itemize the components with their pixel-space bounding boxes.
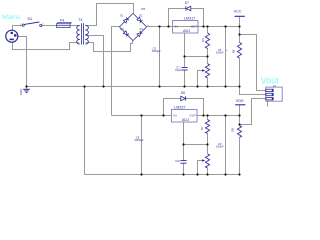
svg-text:IN: IN <box>174 113 177 117</box>
svg-text:IN: IN <box>175 24 178 28</box>
svg-text:J2: J2 <box>273 84 277 88</box>
svg-text:OUT: OUT <box>191 24 198 28</box>
svg-text:R8: R8 <box>230 128 234 132</box>
svg-text:D7: D7 <box>185 1 189 5</box>
svg-text:100nF: 100nF <box>216 145 224 149</box>
svg-text:OUT: OUT <box>190 113 197 117</box>
svg-text:D8: D8 <box>181 91 185 95</box>
svg-text:ADJ: ADJ <box>183 29 190 33</box>
svg-text:+: + <box>226 49 228 52</box>
svg-text:Mains: Mains <box>2 14 21 21</box>
svg-text:3300µF: 3300µF <box>134 138 144 142</box>
svg-text:LM317: LM317 <box>184 16 195 20</box>
svg-text:100nF: 100nF <box>216 51 224 55</box>
svg-text:D5: D5 <box>141 7 145 11</box>
svg-text:R7: R7 <box>200 126 204 130</box>
svg-text:10µF: 10µF <box>175 68 182 72</box>
svg-text:R5: R5 <box>201 38 205 42</box>
svg-text:R6: R6 <box>232 49 236 53</box>
svg-text:Vout: Vout <box>261 76 280 86</box>
svg-text:3300µF: 3300µF <box>152 49 162 53</box>
svg-text:D2: D2 <box>139 15 143 18</box>
svg-text:D1: D1 <box>120 15 124 18</box>
svg-text:LM337: LM337 <box>174 106 185 110</box>
svg-text:VDD: VDD <box>236 99 244 103</box>
svg-text:S1: S1 <box>27 16 33 21</box>
svg-text:C10: C10 <box>175 159 180 163</box>
svg-text:VCC: VCC <box>234 10 242 14</box>
svg-text:F4: F4 <box>60 18 64 22</box>
svg-text:GND: GND <box>19 89 23 95</box>
svg-text:T4: T4 <box>78 18 82 22</box>
svg-text:ADJ: ADJ <box>182 118 189 122</box>
